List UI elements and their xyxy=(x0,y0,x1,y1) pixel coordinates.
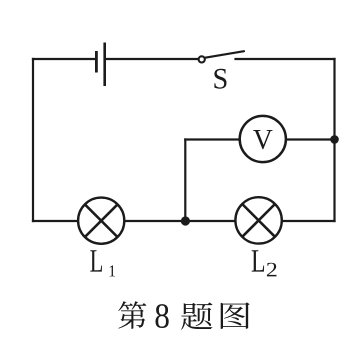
junction dot: node between L1 and L2 on bottom wire xyxy=(181,216,190,225)
wire: right rail (vertical) xyxy=(333,59,335,221)
wire: lamp L1 to junction node xyxy=(124,220,185,222)
wire: junction node to lamp L2 xyxy=(185,220,235,222)
junction dot: node on right rail at voltmeter branch xyxy=(330,135,339,144)
wire: voltmeter branch vertical (junction up to branch) xyxy=(184,140,186,222)
label S (switch) xyxy=(214,69,226,89)
label L2 xyxy=(252,250,277,276)
caption: 第 8 题图 (figure for question 8) xyxy=(118,301,249,329)
battery cell xyxy=(96,43,104,87)
wire: voltmeter branch horizontal right to right rail xyxy=(286,138,335,140)
lamp L1 xyxy=(78,198,124,244)
label L1 xyxy=(90,250,115,276)
wire: bottom, left corner to lamp L1 xyxy=(33,220,78,222)
lamp L2 xyxy=(235,197,281,243)
wire: lamp L2 to bottom-right corner xyxy=(282,220,335,222)
wire: voltmeter branch horizontal left xyxy=(185,138,240,140)
switch S (open) xyxy=(199,51,244,62)
wire: left rail (vertical) xyxy=(32,59,34,221)
wire: top-left segment (battery negative to left rail) xyxy=(33,58,95,60)
voltmeter V xyxy=(240,116,286,162)
wire: switch fixed contact to top-right corner xyxy=(236,58,335,60)
wire: battery positive to switch pivot xyxy=(105,58,199,60)
